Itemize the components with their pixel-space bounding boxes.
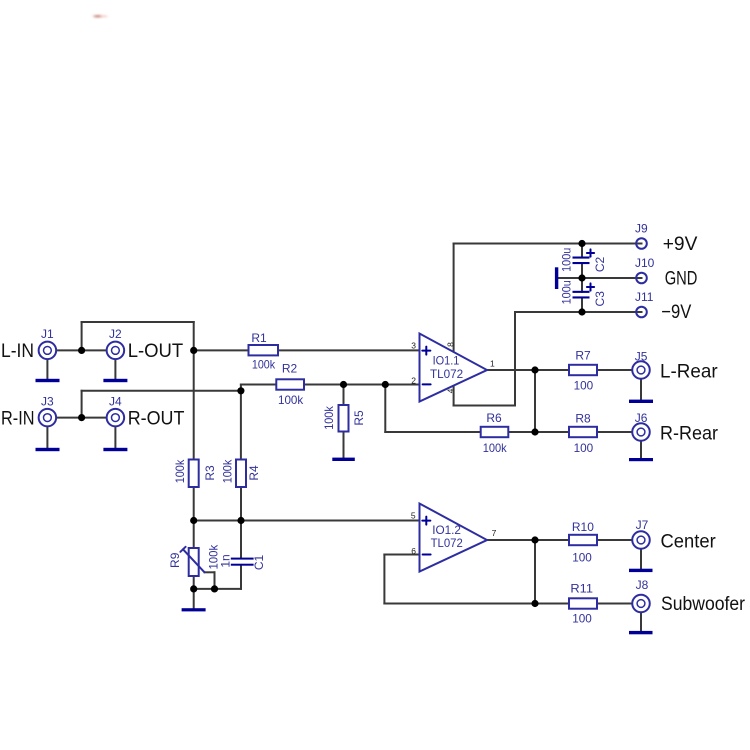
svg-text:L-IN: L-IN <box>1 340 34 362</box>
svg-text:100: 100 <box>574 441 594 455</box>
svg-text:5: 5 <box>411 511 416 521</box>
svg-text:J5: J5 <box>635 349 648 363</box>
svg-text:8: 8 <box>445 342 455 347</box>
svg-text:100: 100 <box>572 550 592 564</box>
svg-text:R-Rear: R-Rear <box>660 422 718 444</box>
svg-text:J7: J7 <box>636 518 649 532</box>
svg-text:4: 4 <box>445 388 455 393</box>
svg-text:R2: R2 <box>282 362 298 376</box>
svg-text:TL072: TL072 <box>430 367 463 381</box>
svg-text:100u: 100u <box>559 248 573 272</box>
svg-text:R4: R4 <box>247 465 261 481</box>
svg-text:6: 6 <box>411 546 416 556</box>
svg-text:IO1.1: IO1.1 <box>433 354 460 368</box>
svg-text:GND: GND <box>665 268 698 290</box>
svg-text:1n: 1n <box>218 554 232 567</box>
svg-text:J3: J3 <box>41 395 54 409</box>
svg-text:100k: 100k <box>483 441 508 455</box>
svg-text:R6: R6 <box>486 411 502 425</box>
svg-text:100k: 100k <box>322 405 336 429</box>
svg-text:+9V: +9V <box>663 233 698 255</box>
svg-text:R5: R5 <box>352 410 366 426</box>
svg-text:R-OUT: R-OUT <box>128 408 185 430</box>
svg-text:J2: J2 <box>109 327 122 341</box>
svg-text:R8: R8 <box>575 412 591 426</box>
svg-text:IO1.2: IO1.2 <box>432 523 461 537</box>
svg-text:C2: C2 <box>593 257 607 273</box>
svg-text:100k: 100k <box>220 459 234 483</box>
svg-text:R11: R11 <box>570 582 593 596</box>
svg-text:J1: J1 <box>41 327 54 341</box>
svg-text:C3: C3 <box>593 291 607 307</box>
svg-text:R1: R1 <box>251 331 267 345</box>
svg-text:3: 3 <box>411 340 416 350</box>
svg-text:Subwoofer: Subwoofer <box>661 593 745 615</box>
svg-text:100: 100 <box>574 379 594 393</box>
svg-text:2: 2 <box>411 376 416 386</box>
svg-text:TL072: TL072 <box>431 536 463 550</box>
svg-text:7: 7 <box>492 528 497 538</box>
svg-text:J11: J11 <box>635 290 654 304</box>
svg-text:J10: J10 <box>635 256 655 270</box>
svg-text:R10: R10 <box>572 520 594 534</box>
svg-text:Center: Center <box>661 531 717 553</box>
svg-text:R9: R9 <box>168 552 182 568</box>
svg-text:J9: J9 <box>635 222 648 236</box>
svg-text:L-Rear: L-Rear <box>660 360 718 382</box>
svg-text:100k: 100k <box>173 459 187 483</box>
svg-text:1: 1 <box>490 358 495 368</box>
svg-text:−9V: −9V <box>661 301 691 323</box>
svg-text:100: 100 <box>572 611 592 625</box>
svg-text:J8: J8 <box>636 578 649 592</box>
svg-text:C1: C1 <box>252 555 266 571</box>
svg-text:100k: 100k <box>252 357 276 371</box>
svg-text:J4: J4 <box>109 395 122 409</box>
svg-text:R7: R7 <box>575 349 591 363</box>
svg-text:R-IN: R-IN <box>1 407 35 429</box>
svg-text:100k: 100k <box>278 393 304 407</box>
svg-text:100u: 100u <box>559 280 573 304</box>
svg-text:L-OUT: L-OUT <box>128 340 184 362</box>
svg-text:R3: R3 <box>203 465 217 481</box>
svg-text:J6: J6 <box>635 411 648 425</box>
